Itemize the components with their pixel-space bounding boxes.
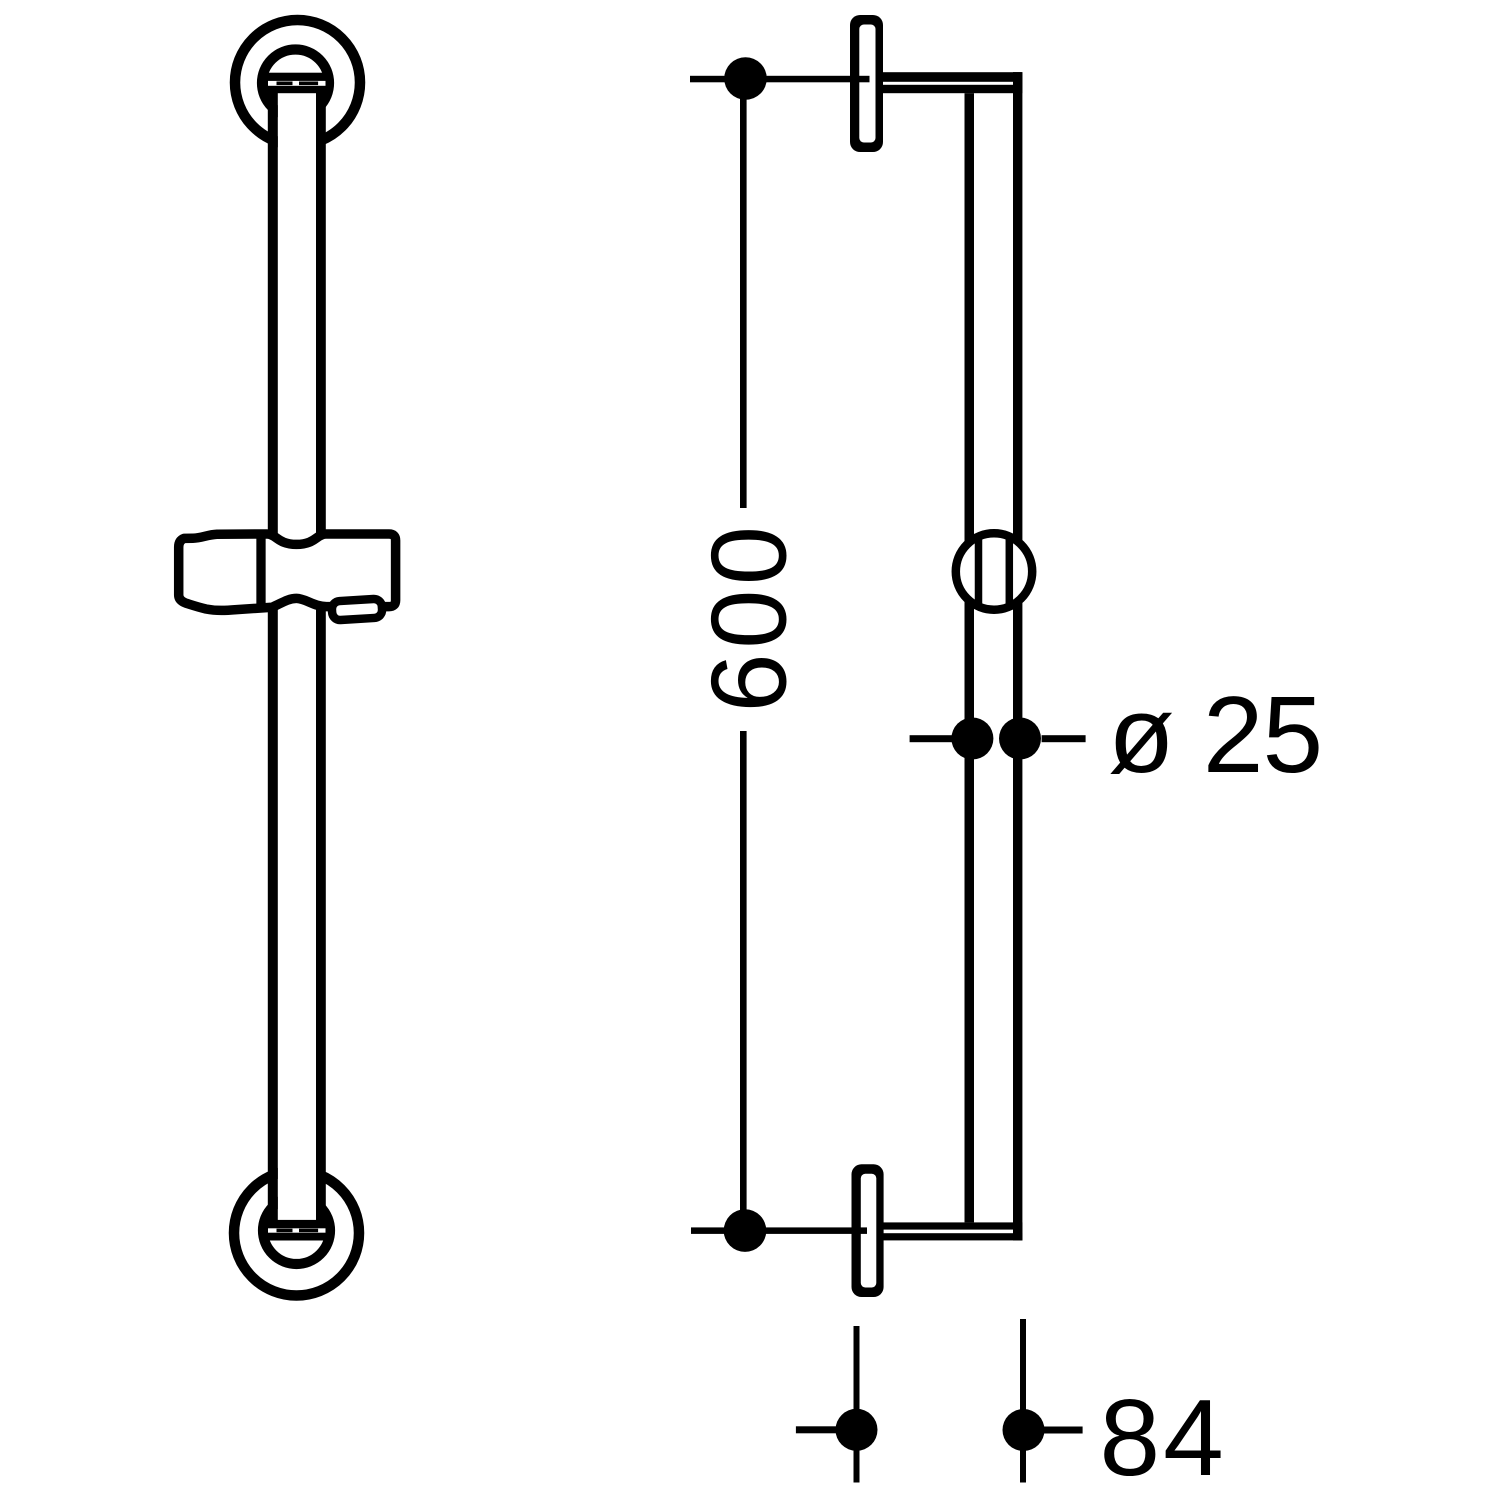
side view: bottom arm lower bar (877, 1233, 1022, 1240)
front view: top wall rosette outer circle (235, 20, 360, 145)
side view: dim 600 top extension line (690, 76, 870, 83)
front view: top end cap slot left dash (277, 82, 293, 86)
dim ø25: right dot (999, 718, 1041, 760)
front view: bottom wall rosette inner ring (263, 1197, 330, 1264)
front view: bottom end cap block (265, 1220, 328, 1241)
front view: rail tube white interior (278, 92, 316, 1221)
svg-text:600: 600 (690, 521, 809, 712)
side view: bottom wall plate slot (861, 1174, 877, 1288)
side view: top wall plate body (850, 15, 883, 152)
front view: top end cap slot right dash (299, 82, 318, 86)
dim 600: vertical line lower segment (740, 731, 747, 1231)
front view: shower head holder body (179, 534, 396, 610)
front view: holder lock slot button (331, 598, 382, 620)
dim 600: top dot (724, 57, 767, 100)
side view: top wall plate slot (859, 25, 875, 143)
side view: top arm upper bar (877, 72, 1022, 82)
dim 600: vertical line upper segment (740, 79, 747, 509)
front view: bottom wall rosette outer circle (234, 1171, 359, 1296)
side view: holder ring inner right line (1006, 537, 1014, 607)
dim 84: left tick (796, 1426, 837, 1433)
dim 84: right witness line (1020, 1319, 1026, 1483)
dim ø25: left tick (910, 735, 953, 742)
side view: bottom wall plate body (852, 1164, 884, 1297)
side view: top arm end cap (1013, 72, 1022, 93)
dim ø25: left dot (951, 718, 993, 760)
side view: holder ring (956, 533, 1032, 609)
front view: bottom end cap slot right dash (299, 1229, 318, 1233)
front view: top end cap block (265, 73, 328, 94)
front view: top wall rosette inner ring (262, 50, 329, 117)
front view: bottom end cap slot band (268, 1228, 326, 1232)
dim 84: left witness line (854, 1326, 860, 1483)
svg-text:ø 25: ø 25 (1108, 674, 1322, 796)
side view: rail left edge (965, 93, 975, 1222)
svg-text:84: 84 (1100, 1377, 1227, 1499)
side view: rail right edge (1013, 72, 1022, 1240)
dim 600: bottom dot (724, 1209, 767, 1252)
dim ø25: right tick (1042, 735, 1086, 742)
side view: bottom arm end cap (1013, 1222, 1022, 1240)
front view: rail tube right edge (316, 93, 326, 1221)
front view: holder clamp divider line (256, 534, 265, 608)
front view: rail tube left edge (268, 93, 278, 1221)
side view: holder ring inner left line (975, 537, 983, 607)
dim 84: right dot (1003, 1409, 1045, 1451)
front view: bottom end cap slot left dash (277, 1229, 293, 1233)
front view: top end cap slot band (268, 81, 326, 86)
dim 84: right tick (1044, 1427, 1083, 1434)
dim 84: left dot (836, 1409, 878, 1451)
side view: bottom arm upper bar (877, 1222, 1015, 1229)
side view: dim 600 bottom extension line (691, 1227, 867, 1234)
side view: top arm lower bar (877, 85, 1015, 93)
